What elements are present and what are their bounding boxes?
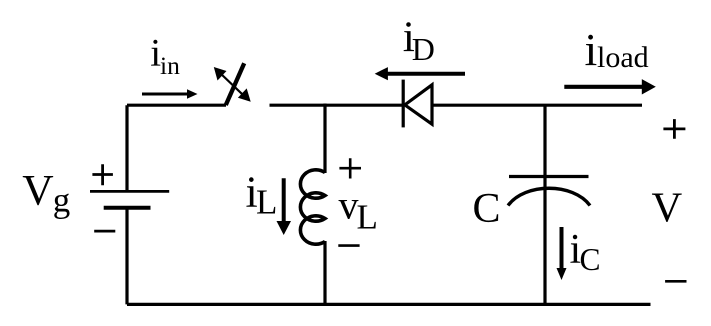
arrow i_D (points left) (375, 67, 465, 80)
arrow i_L (down) (277, 178, 292, 235)
arrow i_load (right) (564, 79, 656, 94)
switch actuation double arrow (214, 67, 251, 102)
label i_in (150, 32, 180, 81)
battery minus sign (94, 230, 115, 233)
svg-text:L: L (256, 183, 277, 222)
wire capacitor branch (543, 105, 546, 304)
label Vg (22, 167, 70, 220)
label i_load (585, 24, 649, 75)
svg-text:C: C (473, 186, 501, 232)
capacitor curved plate (508, 188, 590, 205)
svg-text:C: C (580, 242, 601, 277)
battery Vg bottom plate (104, 206, 151, 210)
wire inductor branch upper (323, 104, 326, 174)
output minus sign (665, 280, 686, 283)
wire bottom rail (127, 303, 651, 306)
label i_L (246, 168, 278, 222)
wire inductor branch lower (323, 241, 326, 304)
svg-text:g: g (53, 181, 71, 220)
svg-text:V: V (652, 185, 683, 232)
inductor minus sign (338, 244, 359, 247)
svg-text:i: i (585, 24, 598, 75)
wire left vertical lower (source to bottom rail) (125, 208, 128, 305)
diode cathode bar (402, 80, 405, 128)
wire top rail middle segment (switch to diode) (270, 104, 404, 107)
svg-text:L: L (357, 198, 378, 237)
inductor coil (300, 170, 325, 244)
battery Vg top plate (90, 190, 169, 193)
battery plus sign (92, 164, 113, 185)
svg-text:v: v (339, 183, 359, 228)
output plus sign (663, 119, 685, 139)
arrow i_C (down) (557, 227, 567, 280)
svg-text:V: V (22, 167, 53, 215)
wire top rail right segment (diode to output) (432, 104, 642, 107)
label i_D (403, 13, 435, 67)
label i_C (570, 227, 601, 277)
wire top rail left segment (127, 104, 226, 107)
svg-text:in: in (160, 51, 180, 80)
svg-text:D: D (412, 31, 435, 67)
diode triangle (pointing left) (405, 85, 432, 124)
svg-text:load: load (597, 41, 649, 74)
wire left vertical upper (source to top rail) (125, 105, 128, 190)
inductor plus sign (339, 158, 361, 178)
switch lever (226, 63, 244, 105)
capacitor top plate (509, 175, 589, 178)
label v_L (339, 183, 378, 237)
arrow i_in (142, 89, 198, 98)
